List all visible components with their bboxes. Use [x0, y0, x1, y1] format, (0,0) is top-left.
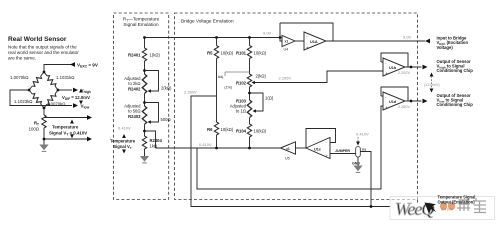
svg-text:-: - [385, 95, 387, 100]
svg-text:(1%): (1%) [224, 86, 232, 90]
svg-text:to 1Ω: to 1Ω [236, 109, 246, 114]
svg-text:Real World Sensor: Real World Sensor [8, 36, 67, 43]
svg-text:R104: R104 [236, 129, 247, 134]
svg-text:U1A: U1A [310, 40, 318, 44]
svg-text:10(kΩ): 10(kΩ) [221, 51, 234, 56]
svg-text:Voltage): Voltage) [437, 45, 454, 50]
svg-text:U4: U4 [284, 48, 289, 52]
svg-text:to 56Ω: to 56Ω [128, 109, 140, 114]
svg-text:1(Ω): 1(Ω) [265, 96, 274, 101]
svg-text:9.0V: 9.0V [263, 31, 272, 36]
svg-text:real world sensor and the emul: real world sensor and the emulator [8, 50, 79, 55]
svg-text:GND: GND [352, 162, 360, 166]
svg-text:Signal VT: Signal VT [113, 144, 132, 150]
svg-text:2.295V: 2.295V [279, 76, 292, 81]
svg-text:1.0070kΩ: 1.0070kΩ [10, 75, 29, 80]
svg-text:x1: x1 [285, 40, 289, 44]
svg-text:R101: R101 [236, 51, 247, 56]
svg-text:Conditioning Chip: Conditioning Chip [437, 68, 474, 73]
svg-text:U1b: U1b [389, 66, 397, 70]
svg-text:Note that the output signals o: Note that the output signals of the [8, 45, 77, 50]
svg-text:R2402: R2402 [128, 87, 141, 92]
svg-text:Vlow: Vlow [81, 104, 90, 110]
svg-text:VDIF = 12.0mV: VDIF = 12.0mV [62, 95, 90, 101]
svg-text:0.410V: 0.410V [356, 132, 369, 137]
svg-text:0.410V: 0.410V [199, 142, 212, 147]
svg-text:R2404: R2404 [150, 138, 163, 143]
svg-text:Temperature: Temperature [110, 139, 136, 144]
svg-text:0.410V: 0.410V [118, 126, 131, 131]
svg-text:U5: U5 [285, 157, 290, 161]
svg-text:are the same.: are the same. [8, 56, 36, 61]
svg-text:2(kΩ): 2(kΩ) [256, 74, 267, 79]
svg-text:1(kΩ): 1(kΩ) [150, 53, 161, 58]
svg-text:R2401: R2401 [128, 53, 141, 58]
svg-text:-: - [326, 140, 328, 145]
svg-text:9.0V: 9.0V [403, 35, 412, 40]
svg-text:-: - [385, 61, 387, 66]
svg-text:to 2kΩ: to 2kΩ [128, 81, 140, 86]
svg-text:x1: x1 [286, 147, 290, 151]
svg-text:1.1031kΩ: 1.1031kΩ [56, 75, 75, 80]
svg-text:Conditioning Chip: Conditioning Chip [437, 102, 474, 107]
svg-text:R6: R6 [207, 127, 213, 132]
svg-text:R5: R5 [207, 51, 213, 56]
svg-text:(12.0mV): (12.0mV) [424, 83, 440, 87]
svg-text:U1d: U1d [389, 100, 397, 104]
svg-text:Temperature: Temperature [52, 125, 79, 130]
svg-text:U1c: U1c [314, 148, 321, 152]
svg-text:1.1023kΩ: 1.1023kΩ [14, 99, 33, 104]
svg-text:10(kΩ): 10(kΩ) [254, 129, 267, 134]
svg-text:500Ω: 500Ω [161, 117, 171, 122]
svg-text:-: - [306, 34, 308, 39]
svg-text:R2403: R2403 [128, 114, 141, 119]
svg-text:10(kΩ): 10(kΩ) [254, 51, 267, 56]
svg-text:Signal VT = 0.410V: Signal VT = 0.410V [49, 131, 87, 137]
svg-text:JUMPER: JUMPER [335, 149, 350, 153]
svg-text:2.292V: 2.292V [398, 71, 411, 75]
svg-text:+: + [385, 71, 388, 76]
svg-text:+: + [385, 105, 388, 110]
svg-text:100Ω: 100Ω [29, 127, 40, 132]
svg-text:VEXC = 9V: VEXC = 9V [77, 63, 99, 69]
svg-text:+: + [306, 45, 309, 50]
svg-text:2(kΩ): 2(kΩ) [161, 86, 172, 91]
svg-text:Output (Emulation): Output (Emulation) [438, 200, 476, 205]
svg-text:0.410V: 0.410V [441, 207, 454, 211]
svg-text:Signal Emulation: Signal Emulation [123, 22, 159, 27]
svg-text:2.280V: 2.280V [184, 90, 197, 95]
svg-text:2.280V: 2.280V [398, 105, 411, 109]
svg-text:R102: R102 [236, 81, 247, 86]
svg-text:10(kΩ): 10(kΩ) [221, 127, 234, 132]
svg-text:Bridge Voltage Emulation: Bridge Voltage Emulation [181, 19, 234, 24]
svg-text:Adj.: Adj. [218, 75, 224, 79]
